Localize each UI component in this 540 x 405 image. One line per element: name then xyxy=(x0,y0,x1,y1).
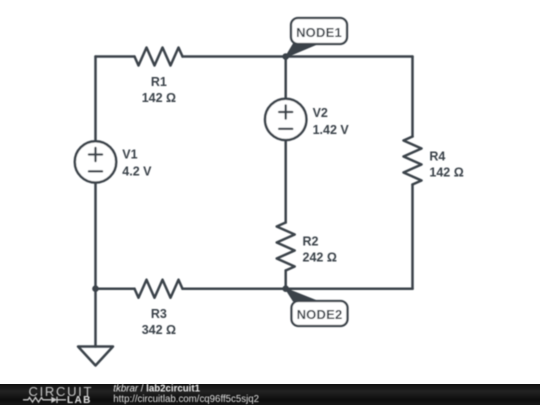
svg-text:342 Ω: 342 Ω xyxy=(142,323,176,337)
svg-text:NODE2: NODE2 xyxy=(297,307,343,322)
voltage source V2 xyxy=(265,99,306,140)
resistor R4 xyxy=(404,137,422,185)
svg-text:tkbrar / lab2circuit1: tkbrar / lab2circuit1 xyxy=(113,383,200,394)
svg-text:142 Ω: 142 Ω xyxy=(142,91,176,105)
node NODE1 label box xyxy=(291,18,347,44)
wire middle vertical mid xyxy=(284,140,287,222)
node NODE2 label box xyxy=(292,301,348,326)
wire middle vertical upper xyxy=(284,57,287,99)
wire bottom-left horizontal segment xyxy=(96,287,135,290)
wire left vertical upper xyxy=(94,57,97,142)
svg-text:http://circuitlab.com/cq96ff5c: http://circuitlab.com/cq96ff5c5sjq2 xyxy=(113,394,259,405)
svg-text:V2: V2 xyxy=(313,106,328,120)
svg-text:V1: V1 xyxy=(122,148,137,162)
svg-text:1.42 V: 1.42 V xyxy=(313,123,350,137)
wire bottom-right horizontal segment xyxy=(183,287,413,290)
svg-text:R1: R1 xyxy=(151,75,167,89)
svg-text:R2: R2 xyxy=(303,234,319,248)
wire right vertical upper xyxy=(411,57,414,137)
logo resistor-diode glyph xyxy=(23,397,66,403)
wire ground stem xyxy=(94,289,97,347)
svg-text:142 Ω: 142 Ω xyxy=(429,166,463,180)
wire middle vertical bottom xyxy=(284,271,287,289)
wire top-right horizontal segment xyxy=(183,55,413,58)
svg-text:R4: R4 xyxy=(429,149,445,163)
svg-text:NODE1: NODE1 xyxy=(296,25,342,40)
svg-text:242 Ω: 242 Ω xyxy=(303,251,337,265)
node NODE2 flag wedge xyxy=(286,289,317,301)
node NODE2 junction dot xyxy=(282,285,289,292)
svg-text:LAB: LAB xyxy=(67,395,92,405)
resistor R3 xyxy=(135,280,183,298)
voltage source V1 xyxy=(75,141,116,182)
node NODE1 junction dot xyxy=(282,53,289,60)
node NODE1 flag wedge xyxy=(286,44,317,57)
wire right vertical lower xyxy=(411,185,414,289)
svg-text:4.2 V: 4.2 V xyxy=(122,164,152,178)
resistor R2 xyxy=(277,223,295,271)
resistor R1 xyxy=(135,48,183,66)
wire top-left horizontal segment xyxy=(96,55,135,58)
svg-text:R3: R3 xyxy=(151,307,167,321)
ground xyxy=(78,347,113,366)
wire left vertical lower xyxy=(94,183,97,289)
junction dot bottom-left xyxy=(92,285,99,292)
